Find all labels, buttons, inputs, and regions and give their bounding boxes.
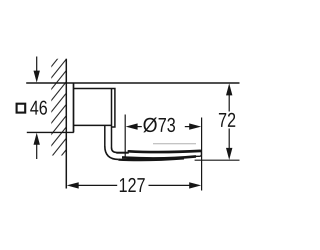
- top extension line (46 top / plate top / arm top / 72 top): [26, 82, 239, 84]
- label dia73: [143, 117, 175, 132]
- arm step line: [74, 124, 112, 126]
- dimension 46 arrow top: [34, 57, 40, 83]
- 46 bottom extension line / plate bottom: [27, 131, 74, 133]
- label 72: [219, 113, 235, 127]
- holder strap top segment: [116, 152, 128, 154]
- ring faint back rim line: [153, 143, 196, 145]
- square symbol for 46: [17, 104, 26, 113]
- dimension 46 arrow bottom: [34, 133, 40, 159]
- arm upper outline (horizontal run bottom edge + right verticals): [74, 89, 115, 128]
- label 127: [120, 178, 145, 192]
- arm inner vertical: [111, 89, 113, 148]
- wall hatching: [41, 42, 71, 181]
- holder strap bottom segment: [118, 158, 184, 160]
- ring bar right end cap: [193, 151, 201, 157]
- label 46: [30, 101, 47, 115]
- dia73 left arrow: [126, 123, 142, 129]
- dia73 right arrow: [185, 123, 201, 129]
- wall face line: [65, 59, 67, 189]
- ring bar top edge: [128, 151, 201, 152]
- dia73/127 right extension line: [201, 118, 203, 191]
- dimension 127 line left segment with arrow: [67, 182, 118, 188]
- dimension 127 line right segment with arrow: [149, 182, 202, 188]
- ring step: [127, 150, 129, 153]
- 72 bottom extension line: [195, 159, 240, 161]
- dia73 left extension line: [124, 115, 126, 159]
- plate right edge: [73, 83, 75, 132]
- ring bar bottom edge: [122, 156, 196, 158]
- arm outer bend: [105, 146, 119, 159]
- dimension 72 arrow bottom: [226, 129, 232, 160]
- dimension 72 arrow top: [226, 83, 232, 111]
- arm lower outer vertical: [104, 125, 106, 146]
- arm inner bend: [112, 148, 117, 153]
